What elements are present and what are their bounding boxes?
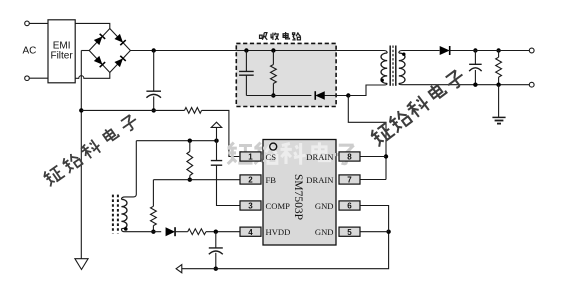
wire AC N to EMI filter (29, 77, 48, 79)
bridge diode D4 (bottom to right) (114, 58, 123, 67)
svg-text:1: 1 (248, 153, 253, 162)
svg-text:AC: AC (23, 46, 37, 57)
earth ground symbol line2 (495, 120, 504, 122)
bulk capacitor C1 (146, 91, 161, 98)
output capacitor C3 (469, 64, 482, 71)
U1 pin 5 box (339, 227, 360, 236)
divider resistor R4 (187, 152, 193, 176)
wire pin8 to drain junction (360, 156, 386, 158)
svg-text:SM7503P: SM7503P (292, 174, 304, 220)
transformer T1 core line center dashed (392, 46, 394, 86)
svg-text:4: 4 (248, 228, 253, 237)
aux transformer core dashed line left (112, 195, 114, 234)
wire aux winding bottom lead (121, 229, 153, 232)
primary winding polarity dot (381, 79, 384, 82)
U1 pin 4 box (240, 227, 261, 236)
wire primary bottom lead (348, 84, 387, 96)
bridge rectifier BD1 diamond (89, 29, 130, 73)
wire snubber cap stem (245, 51, 247, 72)
watermark center horizontal over IC (228, 142, 358, 164)
bridge diode D1 (left to top) (94, 36, 103, 45)
wire output cap stem top (474, 51, 476, 65)
U1 pin 3 box (240, 201, 261, 210)
output terminal - (529, 82, 534, 87)
wire DC- vertical down to return arrow (80, 51, 82, 259)
op-amp U1 SM7503P body (263, 140, 336, 246)
wire R5 bottom stem (152, 226, 154, 232)
resistor R1 (CS sense feed) (185, 108, 202, 114)
junction snubber cap top (244, 48, 248, 52)
earth ground symbol line1 (492, 116, 505, 118)
wire output top rail to terminal (449, 50, 529, 52)
watermark right diagonal (369, 68, 467, 146)
junction output resistor bottom / ground (496, 83, 500, 87)
svg-text:CS: CS (266, 152, 277, 162)
wire bulk cap stem bottom (153, 96, 155, 110)
wire FB net (153, 179, 240, 181)
svg-text:8: 8 (347, 153, 352, 162)
wire output resistor stem bottom (498, 77, 500, 85)
snubber label 吸收电路 (absorption circuit) (260, 32, 301, 40)
wire snubber resistor stem top (272, 51, 274, 65)
wire comp branch lower to COMP pin (217, 165, 241, 205)
svg-text:DRAIN: DRAIN (306, 152, 334, 162)
wire main DC+ rail from bridge to transformer primary (130, 50, 384, 52)
wire secondary top lead (399, 51, 440, 54)
wire output cap stem bottom (474, 70, 476, 85)
output terminal + (529, 48, 534, 53)
comp capacitor C4 (211, 161, 222, 166)
wire arrow stem to vcc rail (216, 127, 218, 140)
transformer T1 core line right (395, 46, 397, 86)
EMI filter block (48, 20, 75, 83)
wire pin5 to gnd junction (360, 231, 389, 233)
wire comp branch upper (216, 141, 218, 161)
secondary winding polarity dot (402, 53, 405, 56)
wire pin7 to drain vertical (360, 179, 386, 181)
output rectifier D6 (440, 46, 450, 55)
wire EMI out bottom to bridge AC2 with hop over DC- wire (75, 73, 110, 79)
wire output resistor stem top (498, 51, 500, 58)
wire primary junction down-jog to drain vertical (348, 96, 386, 180)
U1 pin 8 box (339, 152, 360, 161)
U1 pin 7 box (339, 175, 360, 184)
junction vcc rail / comp branch (214, 139, 218, 143)
wire D7 to R6 (175, 231, 188, 233)
U1 pin1 indicator circle (270, 143, 277, 150)
junction output cap top (473, 48, 477, 52)
wire bulk cap stem top (153, 51, 155, 92)
wire FB down to lower divider resistor (152, 180, 154, 207)
svg-text:COMP: COMP (266, 201, 291, 211)
HVDD series resistor R6 (188, 229, 206, 235)
AC input terminal N (25, 76, 30, 81)
primary return arrow (down) (75, 259, 88, 270)
signal return arrow (left) (176, 265, 182, 273)
wire divider resistor stem top (189, 141, 191, 152)
svg-text:DRAIN: DRAIN (306, 175, 334, 185)
wire vcc rail down to aux winding (121, 141, 136, 200)
snubber circuit dashed box (236, 43, 336, 106)
watermark center horizontal (228, 142, 358, 164)
wire aux to HVDD diode (153, 231, 161, 233)
U1 pin 1 box (240, 152, 261, 161)
HVDD capacitor C5 (209, 248, 223, 254)
wire ground stem (498, 85, 500, 118)
transformer T1 secondary winding (399, 53, 405, 84)
svg-text:FB: FB (266, 175, 277, 185)
wire snubber resistor stem bottom (272, 84, 274, 96)
wire snubber diode to primary junction (325, 95, 349, 97)
svg-text:Filter: Filter (50, 50, 73, 61)
wire AC L to EMI filter (29, 22, 48, 24)
junction DC- rail at bulk cap (152, 108, 156, 112)
junction aux winding wire / R5 (151, 230, 155, 234)
wire snubber bottom rail (246, 95, 311, 97)
wire HVDD cap bottom stem (215, 253, 217, 269)
junction GND pins tie (386, 230, 390, 234)
svg-text:3: 3 (248, 202, 253, 211)
junction bulk cap top (152, 48, 156, 52)
snubber resistor R2 (271, 65, 277, 84)
junction HVDD cap top (214, 230, 218, 234)
wire EMI out top to bridge AC1 (75, 23, 110, 28)
U1 pin 2 box (240, 175, 261, 184)
wire secondary bottom lead (399, 84, 530, 85)
aux transformer core dashed line right (117, 195, 119, 234)
U1 pin 6 box (339, 201, 360, 210)
earth ground symbol line3 (497, 123, 501, 125)
output load resistor R3 (496, 57, 502, 77)
wire DC- lower rail left (81, 109, 184, 111)
aux rectifier diode D7 (166, 227, 176, 236)
svg-text:6: 6 (347, 202, 352, 211)
junction snubber resistor bottom (271, 93, 275, 97)
junction drain pins (384, 154, 388, 158)
wire primary top lead (384, 51, 387, 54)
svg-text:5: 5 (347, 228, 352, 237)
aux winding (121, 199, 127, 228)
snubber diode D5 (points left) (315, 91, 325, 100)
wire R6 to HVDD pin (206, 231, 240, 233)
bridge diode D3 (left to bottom) (94, 56, 103, 65)
wire pin6 to gnd vertical (360, 206, 389, 232)
wire return rail (182, 232, 389, 269)
AC input terminal L (25, 21, 30, 26)
watermark left diagonal (42, 113, 140, 186)
wire vcc rail (136, 140, 216, 142)
snubber capacitor C2 (239, 71, 254, 75)
vcc reference arrow (up) (211, 122, 221, 127)
wire HVDD cap stem (215, 232, 217, 248)
junction output resistor top (496, 48, 500, 52)
lower divider resistor R5 (151, 206, 157, 225)
junction HVDD cap / return rail (214, 267, 218, 271)
svg-text:GND: GND (315, 227, 334, 237)
junction snubber / primary bottom (346, 93, 350, 97)
junction snubber resistor top (271, 48, 275, 52)
wire snubber cap bottom (245, 75, 247, 95)
transformer T1 core line left (389, 46, 391, 86)
wire bridge left vertex to DC- vertical (81, 50, 89, 52)
wire DC+ rail across snubber box (236, 50, 336, 52)
junction output cap bottom (473, 83, 477, 87)
junction vcc rail / divider resistor (188, 139, 192, 143)
svg-text:GND: GND (315, 201, 334, 211)
bridge diode D2 (top to right) (114, 34, 123, 43)
wire divider resistor stem bottom (189, 176, 191, 180)
junction FB wire / divider resistor (188, 178, 192, 182)
junction DC- vertical / lower rail (79, 108, 83, 112)
aux winding polarity dot (124, 227, 128, 231)
svg-text:HVDD: HVDD (266, 227, 291, 237)
wire R1 to CS pin (202, 110, 240, 156)
svg-text:2: 2 (248, 176, 253, 185)
svg-text:7: 7 (347, 176, 352, 185)
transformer T1 primary winding (381, 53, 387, 84)
